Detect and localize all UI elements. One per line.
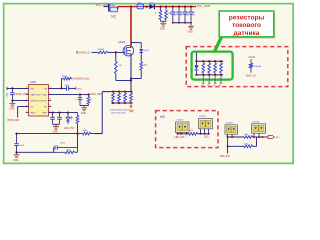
svg-text:R1: R1 xyxy=(201,85,203,87)
svg-text:GND: GND xyxy=(77,88,82,90)
junction xyxy=(130,79,132,81)
svg-text:резисторы: резисторы xyxy=(229,14,265,21)
wire sense top rail xyxy=(102,91,132,93)
svg-text:500k: 500k xyxy=(244,143,248,145)
svg-text:10n: 10n xyxy=(192,15,195,17)
svg-text:C10001: C10001 xyxy=(226,122,234,124)
wire xyxy=(53,123,60,125)
resistor R1013 xyxy=(214,60,216,62)
wire feedback rail xyxy=(17,133,83,135)
svg-text:GND: GND xyxy=(13,159,19,162)
pins of C10001 xyxy=(227,134,229,137)
wire LG / PWM xyxy=(18,106,29,108)
svg-text:датчика: датчика xyxy=(234,30,260,37)
wire VIN xyxy=(7,87,29,89)
svg-text:GATE_D: GATE_D xyxy=(79,51,90,55)
wire xyxy=(178,133,189,135)
ground xyxy=(16,152,18,154)
svg-text:R1: R1 xyxy=(219,85,221,87)
resistor R4011 xyxy=(112,93,115,102)
variant region dashed box 2 (NC) xyxy=(156,111,218,148)
wire sense copy bottom rail xyxy=(196,74,224,76)
wire sense bottom rail xyxy=(111,102,132,104)
pin stubs left xyxy=(26,87,29,89)
svg-text:LED: LED xyxy=(204,137,209,139)
transistor Q4000 P-MOSFET xyxy=(123,45,134,56)
svg-text:PWM_DIM: PWM_DIM xyxy=(8,119,20,122)
resistor R900 xyxy=(64,77,71,80)
junction xyxy=(51,112,53,114)
svg-text:GATE_OVP: GATE_OVP xyxy=(15,93,28,96)
capacitor C901 inline xyxy=(66,86,68,91)
svg-text:GND_CS: GND_CS xyxy=(246,75,256,78)
wire capacitor bottom rail xyxy=(173,22,191,24)
capacitor C905 xyxy=(16,134,18,144)
svg-text:VCC_12VD: VCC_12VD xyxy=(197,4,211,8)
resistor R904 xyxy=(54,151,66,153)
capacitor C902 xyxy=(79,94,81,97)
wire bottom rail xyxy=(17,151,54,153)
svg-text:D4001: D4001 xyxy=(143,50,150,52)
green highlight box xyxy=(192,52,233,80)
resistor R4012 xyxy=(118,93,121,102)
wire GND pin to GND_CSP xyxy=(49,93,91,95)
svg-text:LG: LG xyxy=(30,107,33,109)
junction xyxy=(11,87,13,89)
svg-text:GND: GND xyxy=(81,112,87,115)
LED LED_PW indicator xyxy=(67,113,69,117)
pins of C10012 xyxy=(200,129,202,134)
svg-text:токового: токового xyxy=(232,22,261,29)
wire stubs down xyxy=(202,75,204,83)
fuse F4000 xyxy=(137,4,144,9)
zener diode D4001 xyxy=(139,49,143,52)
wire xyxy=(140,70,142,79)
svg-text:100k: 100k xyxy=(143,65,147,67)
resistor R1011 xyxy=(202,60,204,62)
resistor R4005 xyxy=(140,62,143,70)
svg-text:100k: 100k xyxy=(66,149,70,151)
wire stub up xyxy=(195,53,197,62)
power port GND_CS arrow xyxy=(130,103,132,106)
junction xyxy=(76,133,78,135)
ground xyxy=(83,106,85,108)
resistor R4013 xyxy=(124,93,127,102)
svg-text:+12VD: +12VD xyxy=(248,56,256,59)
wire xyxy=(104,6,109,8)
no-ERC marker xyxy=(129,109,133,112)
wire to label xyxy=(227,146,229,153)
svg-text:1206 1206 1206: 1206 1206 1206 xyxy=(111,113,126,115)
svg-text:100mR: 100mR xyxy=(254,66,261,68)
wire upper rung xyxy=(228,136,244,138)
wire xyxy=(198,133,209,135)
capacitor C4001 xyxy=(172,6,174,8)
svg-text:C906: C906 xyxy=(60,142,66,144)
resistor R10002 500k xyxy=(244,145,253,148)
svg-text:LED_PW: LED_PW xyxy=(174,136,185,139)
svg-text:10n: 10n xyxy=(174,15,177,17)
svg-text:GND: GND xyxy=(9,108,15,111)
wire xyxy=(108,51,124,53)
svg-text:C10003: C10003 xyxy=(176,120,184,122)
wire drain down xyxy=(130,56,132,91)
svg-text:D40: D40 xyxy=(150,3,153,5)
capacitor C904 xyxy=(59,113,61,117)
wire xyxy=(140,53,142,62)
junction xyxy=(58,112,60,114)
variant region dashed box 1 xyxy=(186,47,288,87)
svg-text:Q4000: Q4000 xyxy=(118,41,126,44)
resistor R1012 xyxy=(208,60,210,62)
svg-text:12VMAIN_Dim: 12VMAIN_Dim xyxy=(73,78,90,81)
junction xyxy=(124,91,126,93)
pins of C10004 xyxy=(253,133,255,137)
ground xyxy=(190,22,192,24)
junction xyxy=(15,151,17,153)
capacitor C903 xyxy=(52,113,54,117)
svg-text:CHECKOVP: CHECKOVP xyxy=(30,101,43,103)
wire xyxy=(115,74,117,81)
wire CHECKOVP xyxy=(12,99,28,101)
svg-text:C10012: C10012 xyxy=(199,116,207,118)
junction xyxy=(118,91,120,93)
junction xyxy=(146,6,148,8)
pin stubs right xyxy=(49,87,52,89)
capacitor C4004 xyxy=(190,6,192,8)
junction xyxy=(60,87,62,89)
ground xyxy=(162,21,164,23)
svg-text:OVP: OVP xyxy=(42,101,47,103)
wire xyxy=(92,51,99,53)
resistor R4004 to ground xyxy=(165,6,167,8)
resistor R902 xyxy=(77,113,79,116)
junction xyxy=(15,133,17,135)
svg-text:U900: U900 xyxy=(30,81,37,84)
svg-text:L1000: L1000 xyxy=(111,5,117,7)
diode D4000 xyxy=(149,4,154,9)
junction xyxy=(115,51,117,53)
junction xyxy=(67,112,69,114)
wire sense copy top rail xyxy=(196,60,224,62)
junction xyxy=(11,99,13,101)
wire stub xyxy=(117,7,119,10)
wire xyxy=(160,20,162,22)
capacitor C900 xyxy=(11,88,13,92)
svg-text:REF: REF xyxy=(43,113,48,115)
wire xyxy=(80,105,89,107)
inductor L1000 (NC) xyxy=(108,4,110,12)
svg-text:LED_PW: LED_PW xyxy=(220,155,231,158)
diode D1000 xyxy=(195,60,197,62)
junction xyxy=(87,93,89,95)
svg-text:GATE OVP: GATE OVP xyxy=(30,93,42,96)
svg-text:5: 5 xyxy=(26,111,27,113)
op-amp U900 LED driver IC xyxy=(29,85,49,117)
resistor R4001 xyxy=(98,51,108,54)
svg-text:NC: NC xyxy=(111,14,117,18)
callout box резисторы токового датчика xyxy=(219,11,274,37)
svg-text:GND: GND xyxy=(42,94,47,96)
svg-text:VBST: VBST xyxy=(30,113,36,115)
svg-text:GND: GND xyxy=(160,28,166,31)
svg-text:C10004: C10004 xyxy=(252,121,260,123)
svg-text:100k: 100k xyxy=(244,134,248,136)
junction xyxy=(130,6,132,8)
resistor R1001 xyxy=(250,59,252,63)
resistor R4014 xyxy=(130,93,133,102)
wire xyxy=(77,134,79,148)
wire gate branch xyxy=(123,51,125,53)
ground xyxy=(11,100,13,103)
junction xyxy=(79,93,81,95)
svg-text:4.7k: 4.7k xyxy=(189,130,193,132)
svg-text:LED_PW: LED_PW xyxy=(64,127,75,130)
junction xyxy=(130,77,132,79)
svg-text:F40: F40 xyxy=(138,3,141,5)
wire source-gate branch xyxy=(131,42,141,44)
svg-text:R4001: R4001 xyxy=(98,49,105,51)
wire sense feedback xyxy=(101,92,103,134)
capacitor C4003 xyxy=(184,6,186,8)
svg-text:2: 2 xyxy=(185,136,186,138)
junction xyxy=(130,91,132,93)
junction xyxy=(112,91,114,93)
capacitor C4002 xyxy=(178,6,180,8)
svg-text:10n: 10n xyxy=(186,15,189,17)
port LED+ xyxy=(268,135,274,138)
svg-text:8: 8 xyxy=(49,99,50,101)
power port GND small xyxy=(75,87,77,90)
wire xyxy=(253,145,257,147)
resistor R10000 xyxy=(189,132,198,135)
svg-text:R900: R900 xyxy=(62,76,68,78)
wire REF pin rail xyxy=(49,112,78,114)
svg-text:LED+: LED+ xyxy=(275,137,281,139)
wire +12V rail xyxy=(117,6,196,8)
callout shadow xyxy=(221,13,276,39)
svg-text:ON: ON xyxy=(44,88,48,90)
pins of C10003 xyxy=(177,133,179,134)
callout pointer xyxy=(212,37,223,53)
resistor R10001 100k xyxy=(244,136,253,139)
ground xyxy=(55,124,57,126)
schematic sheet with green border xyxy=(4,4,294,164)
svg-text:GND_CSP: GND_CSP xyxy=(90,93,102,96)
wire xyxy=(91,133,103,135)
svg-text:R1: R1 xyxy=(207,85,209,87)
resistor R903 inline 100k xyxy=(83,132,91,135)
resistor R4002 gate pulldown xyxy=(115,52,117,61)
svg-text:7: 7 xyxy=(49,105,50,107)
resistor R901 xyxy=(88,94,90,96)
resistor R4003 to ground xyxy=(159,6,161,8)
wire xyxy=(253,136,269,138)
wire lower rung xyxy=(227,137,229,146)
svg-text:NC: NC xyxy=(160,115,166,119)
port GATE_D xyxy=(76,52,78,54)
wire +12V drop to Q4000 xyxy=(130,7,132,46)
resistor R1014 xyxy=(220,60,222,62)
wire up to R900 xyxy=(61,79,63,89)
net label 12VMAIN_Dim xyxy=(71,78,72,80)
wire ON pin xyxy=(49,87,67,89)
svg-text:R4011 R4012 R4013: R4011 R4012 R4013 xyxy=(110,110,130,112)
svg-text:10n: 10n xyxy=(180,15,183,17)
svg-text:R1: R1 xyxy=(213,85,215,87)
svg-text:VIN: VIN xyxy=(30,88,34,90)
svg-text:GND: GND xyxy=(188,31,194,34)
